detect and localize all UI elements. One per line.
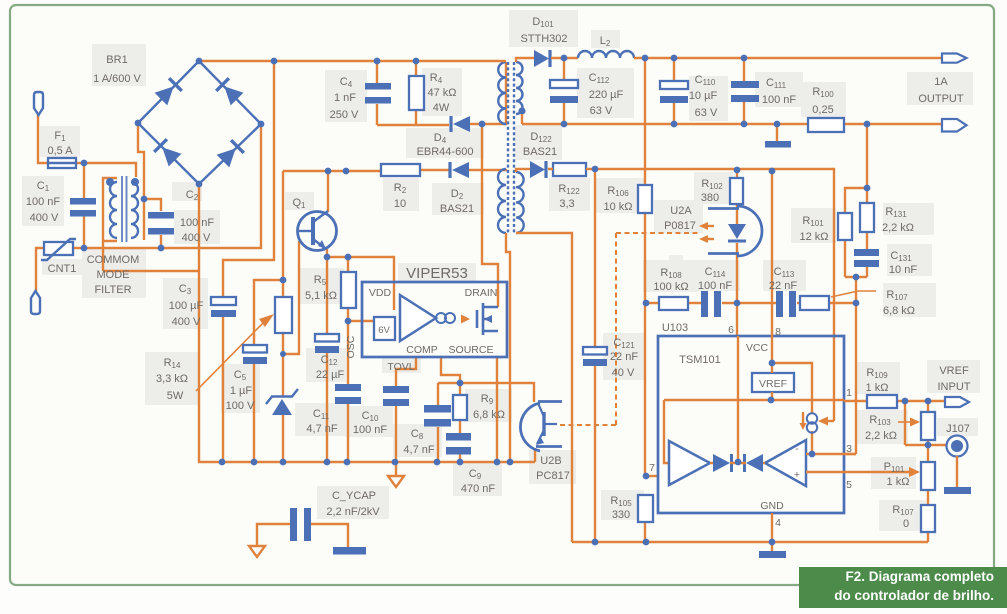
optocoupler U2B arc: [520, 403, 540, 451]
wire: drain node down into VIPER53: [482, 124, 498, 307]
wire: ground stub under rail: [395, 462, 397, 476]
svg-text:EBR44-600: EBR44-600: [417, 146, 474, 158]
wire: VDD row to VIPER: [326, 257, 394, 310]
wire: output plus row: [634, 57, 942, 59]
svg-text:BR1: BR1: [106, 54, 127, 66]
mosfet inside VIPER53: [476, 310, 479, 328]
wire: Q1 base to zener node: [283, 241, 299, 354]
svg-text:10 kΩ: 10 kΩ: [603, 201, 632, 213]
capacitor C114: [701, 291, 708, 317]
TRANSFORMER: [498, 61, 928, 542]
wire: pin3 to node: [844, 453, 856, 455]
wire: pin5 row: [806, 471, 844, 473]
capacitor C8: [424, 405, 451, 413]
svg-text:470 nF: 470 nF: [461, 483, 496, 495]
current source circles: [807, 413, 817, 423]
connector plug bottom input: [31, 291, 40, 314]
ground bar pin4: [759, 551, 786, 558]
svg-text:63 V: 63 V: [695, 107, 718, 119]
svg-text:6: 6: [728, 324, 734, 336]
svg-text:100 V: 100 V: [226, 400, 255, 412]
svg-text:0,25: 0,25: [812, 104, 833, 116]
wire: neutral row to bridge right corner: [73, 126, 261, 248]
diode D101: [534, 50, 549, 67]
connector J107: [947, 436, 968, 457]
svg-text:1 nF: 1 nF: [334, 92, 356, 104]
wire: C121 column: [594, 169, 596, 542]
svg-text:1A: 1A: [934, 76, 948, 88]
svg-text:1: 1: [846, 387, 852, 399]
svg-text:4,7 nF: 4,7 nF: [403, 444, 434, 456]
connector output return: [942, 119, 967, 132]
svg-text:-: -: [795, 443, 799, 455]
svg-text:400 V: 400 V: [172, 316, 201, 328]
zener diode DZ: [272, 399, 292, 415]
svg-text:4W: 4W: [433, 102, 450, 114]
svg-text:250 V: 250 V: [330, 109, 359, 121]
wire: snubber bottom row to D4: [377, 62, 506, 125]
wire: COMP node to U2B collector: [460, 383, 534, 402]
capacitor C1: [70, 198, 96, 205]
wire: pin5 wiper arrow: [844, 471, 910, 473]
R14 selection arrow: [196, 320, 266, 391]
svg-text:100 nF: 100 nF: [698, 280, 733, 292]
ground arrow primary: [388, 476, 404, 487]
coupler circles: [436, 313, 446, 323]
svg-text:10 µF: 10 µF: [689, 90, 718, 102]
resistor R100 shunt: [808, 118, 844, 132]
wire: C2 bottom: [160, 235, 162, 248]
wire: C_YCAP right leg: [311, 524, 348, 547]
capacitor C9: [446, 433, 471, 441]
SECONDARY_TOP: [516, 50, 967, 426]
capacitor C113: [776, 291, 783, 317]
capacitor C131: [854, 249, 879, 256]
svg-text:2,2 nF/2kV: 2,2 nF/2kV: [326, 506, 380, 518]
svg-text:10: 10: [394, 198, 406, 210]
wire: OSC pin: [348, 320, 374, 322]
svg-text:1 µF: 1 µF: [230, 385, 253, 397]
aux winding lower-left: [498, 169, 506, 233]
svg-text:1 kΩ: 1 kΩ: [887, 476, 910, 488]
svg-text:6,8 kΩ: 6,8 kΩ: [883, 305, 915, 317]
common mode choke L1: [110, 182, 117, 238]
rheostat R14: [275, 297, 292, 333]
svg-text:INPUT: INPUT: [938, 381, 971, 393]
svg-text:3: 3: [846, 443, 852, 455]
small down arrow: [802, 412, 804, 424]
svg-text:5,1 kΩ: 5,1 kΩ: [305, 290, 337, 302]
wire: CNT1 to bottom plug: [36, 248, 44, 291]
svg-text:1 A/600 V: 1 A/600 V: [93, 73, 141, 85]
svg-text:STTH302: STTH302: [520, 33, 567, 45]
svg-text:400 V: 400 V: [30, 212, 59, 224]
ground bar output: [765, 141, 791, 148]
wire: R14 / zener column: [282, 171, 284, 462]
svg-text:3,3: 3,3: [559, 198, 574, 210]
wire: R106 column from +out: [644, 58, 646, 542]
wire: fuse to L1 right winding top: [76, 163, 136, 177]
svg-text:VDD: VDD: [369, 287, 392, 299]
ground bar J107: [944, 487, 971, 494]
svg-text:U2B: U2B: [540, 455, 561, 467]
svg-text:+: +: [794, 469, 800, 481]
wire: TOVL pin to C10: [396, 357, 416, 462]
svg-text:BAS21: BAS21: [523, 146, 557, 158]
svg-text:4: 4: [775, 517, 781, 529]
capacitor C4: [365, 83, 391, 90]
bridge diode top-right: [216, 78, 243, 105]
svg-text:VIPER53: VIPER53: [406, 265, 468, 282]
VREF box: [752, 373, 794, 392]
wire: L1 left winding bracket: [103, 178, 200, 271]
resistor R131: [860, 203, 874, 232]
svg-text:220 µF: 220 µF: [589, 89, 624, 101]
wire: primary top connects row: [500, 60, 506, 62]
wire: C5 branch: [254, 280, 283, 462]
capacitor C2: [148, 212, 174, 219]
diode D4: [453, 116, 470, 132]
wire: C112 legs: [563, 58, 565, 124]
svg-text:do controlador de brilho.: do controlador de brilho.: [834, 588, 994, 603]
wire: VREF branch to current source: [772, 363, 812, 454]
VIPER53 box U1: [362, 282, 507, 357]
svg-text:100 kΩ: 100 kΩ: [653, 281, 688, 293]
svg-text:0,5 A: 0,5 A: [47, 145, 73, 157]
connector output plus: [942, 54, 967, 63]
svg-text:J107: J107: [946, 423, 970, 435]
svg-text:GND: GND: [760, 500, 784, 512]
capacitor C5 electrolytic: [243, 345, 267, 353]
svg-text:SOURCE: SOURCE: [449, 344, 494, 356]
wire: pin8 column VREF: [771, 171, 773, 373]
orange arrow into current source: [818, 417, 828, 426]
wire: pin1 row to R109 and VREF input: [844, 400, 945, 402]
bridge diode bottom-left: [154, 139, 181, 166]
svg-text:OUTPUT: OUTPUT: [918, 93, 964, 105]
connector plug top input: [34, 92, 43, 115]
wire: down to J107 row: [905, 401, 946, 445]
bridge diode top-left: [155, 78, 182, 105]
svg-text:330: 330: [612, 509, 630, 521]
feedback winding lower-right: [516, 172, 524, 233]
ground arrow C_YCAP: [249, 546, 265, 557]
primary winding: [498, 62, 506, 124]
6V reference box: [374, 317, 395, 340]
resistor R106: [638, 185, 652, 213]
svg-text:10 nF: 10 nF: [889, 264, 917, 276]
svg-text:VCC: VCC: [746, 342, 769, 354]
wire: secondary gnd rail lower: [572, 541, 928, 543]
resistor R101: [838, 213, 852, 240]
wire: R102 U2A column: [736, 170, 738, 336]
diode pair middle: [713, 454, 730, 472]
transistor Q1: [298, 212, 337, 251]
bridge rectifier BR1 frame: [138, 61, 261, 184]
wire: C110 legs: [673, 58, 675, 124]
U2A emission arrows: [703, 225, 714, 227]
svg-text:PC817: PC817: [536, 470, 570, 482]
wire: COMP pin to R9 C9: [441, 357, 460, 462]
svg-text:5W: 5W: [167, 390, 184, 402]
svg-text:100 µF: 100 µF: [169, 300, 204, 312]
wire: pin7 stub: [645, 475, 659, 477]
wire: R5 column and C11: [347, 257, 349, 462]
resistor R9: [453, 395, 467, 420]
capacitor C121 electrolytic: [583, 347, 607, 355]
optocoupler U2A arc: [737, 206, 762, 256]
leader line R107b label: [831, 291, 876, 297]
CONTROL: [520, 58, 876, 558]
resistor R107a: [921, 505, 935, 532]
svg-text:8: 8: [775, 326, 781, 338]
error amp triangle: [400, 295, 436, 341]
svg-text:TSM101: TSM101: [679, 354, 721, 366]
svg-text:7: 7: [649, 462, 655, 474]
orange arrow to mosfet gate: [461, 315, 470, 324]
svg-text:BAS21: BAS21: [440, 203, 474, 215]
wire: Q1 emitter: [326, 249, 328, 257]
wire: HV branch down to C3: [223, 61, 274, 462]
resistor R103: [921, 412, 935, 440]
wire: C8 branch: [438, 383, 460, 462]
svg-text:1 kΩ: 1 kΩ: [866, 382, 889, 394]
wire: output gnd stub: [776, 124, 778, 141]
LED U2A: [728, 224, 746, 239]
diode D2: [452, 162, 469, 178]
svg-text:DRAIN: DRAIN: [465, 287, 498, 299]
svg-text:5: 5: [846, 479, 852, 491]
capacitor C112 electrolytic: [550, 80, 578, 88]
resistor R4: [409, 76, 424, 110]
svg-text:3,3 kΩ: 3,3 kΩ: [156, 373, 188, 385]
svg-text:COMP: COMP: [406, 344, 438, 356]
svg-text:MODE: MODE: [97, 269, 130, 281]
wire: J107 ground: [956, 456, 958, 487]
wire: bottom node C131 R101: [845, 277, 867, 454]
wire: C_YCAP left leg: [257, 524, 290, 545]
diode D122: [530, 161, 545, 178]
svg-text:100 nF: 100 nF: [180, 217, 215, 229]
svg-text:40 V: 40 V: [612, 367, 635, 379]
svg-text:CNT1: CNT1: [48, 263, 77, 275]
transistor U2B: [542, 412, 545, 436]
svg-text:0: 0: [903, 518, 909, 530]
svg-text:400 V: 400 V: [182, 232, 211, 244]
wire: R103 P101 R107a column: [927, 401, 929, 542]
capacitor C11: [335, 384, 361, 391]
wire: C4 snubber legs: [377, 61, 416, 125]
svg-text:380: 380: [701, 192, 719, 204]
thermistor CNT1: [44, 242, 73, 255]
svg-text:22 µF: 22 µF: [316, 369, 345, 381]
svg-text:COMMOM: COMMOM: [87, 254, 140, 266]
wire: aux winding bottom to primary gnd: [506, 233, 510, 462]
svg-text:22 nF: 22 nF: [769, 280, 797, 292]
capacitor C3 electrolytic: [211, 297, 236, 305]
svg-text:2,2 kΩ: 2,2 kΩ: [865, 430, 897, 442]
R103 leader arrow: [898, 421, 912, 423]
svg-text:6,8 kΩ: 6,8 kΩ: [473, 409, 505, 421]
bridge diode bottom-right: [217, 140, 244, 167]
svg-text:100 nF: 100 nF: [26, 196, 61, 208]
wire: bridge bottom down and primary ground rail: [199, 184, 535, 462]
wire: secondary return row: [522, 114, 942, 124]
resistor R108: [659, 297, 688, 310]
svg-text:4,7 nF: 4,7 nF: [306, 423, 337, 435]
resistor R109: [867, 395, 897, 408]
svg-text:6V: 6V: [378, 325, 390, 336]
wire: C111 legs: [743, 58, 745, 124]
resistor R105: [638, 495, 653, 522]
resistor R5: [341, 272, 356, 308]
wire: SOURCE pin down: [496, 357, 498, 462]
wire: U2B emitter to rail: [534, 448, 536, 462]
wire: feedback row: [548, 169, 834, 421]
wire: Q1 collector: [327, 171, 329, 212]
wire: pin3 row: [806, 453, 856, 455]
resistor R122: [553, 163, 586, 176]
comparator triangle right: [765, 440, 806, 486]
wire: D101 to L2: [551, 57, 578, 59]
secondary winding top: [516, 62, 523, 114]
dashed optocoupler link: [557, 233, 698, 425]
wire: aux row R2 D2: [283, 169, 506, 171]
wire: bridge left corner to C2 top: [138, 126, 161, 240]
comparator triangle left: [669, 441, 710, 485]
svg-text:22 nF: 22 nF: [610, 351, 638, 363]
wire: pin6 column inside: [737, 336, 739, 460]
capacitor C12 electrolytic: [315, 334, 339, 342]
svg-text:TOVL: TOVL: [387, 361, 414, 373]
resistor R102: [730, 178, 743, 204]
resistor R107b: [800, 296, 829, 310]
wire: input plug top to fuse F1: [38, 114, 48, 163]
wire: C1 branch: [83, 163, 85, 248]
TSM101 box U103: [658, 336, 844, 513]
transformer T1 core: [507, 62, 509, 233]
WIRES_PRIMARY: [36, 61, 535, 557]
svg-text:U103: U103: [662, 322, 688, 334]
svg-text:C_YCAP: C_YCAP: [332, 490, 376, 502]
capacitor C110 electrolytic: [660, 81, 688, 89]
wire: pin4 gnd: [771, 513, 773, 551]
wire: feedback winding bottom to secondary gnd: [516, 233, 572, 542]
wire: VREF bottom / pin1 row inside: [664, 392, 844, 463]
capacitor C111: [731, 81, 759, 88]
svg-text:VREF: VREF: [939, 365, 969, 377]
COMP_PRIMARY: [31, 58, 507, 555]
caption box: [799, 567, 1007, 608]
wire: secondary top to D101: [516, 58, 534, 62]
inductor L2: [578, 51, 634, 58]
connector VREF INPUT: [945, 397, 969, 407]
capacitor C10: [383, 386, 409, 393]
svg-text:U2A: U2A: [670, 205, 692, 217]
wire: vsense row R108 C114 C113 R107: [645, 302, 856, 304]
resistor R2: [381, 164, 420, 176]
ground bar C_YCAP: [333, 547, 366, 555]
svg-text:VREF: VREF: [759, 378, 787, 390]
wire: feedback winding top to D122: [516, 169, 530, 172]
svg-text:100 nF: 100 nF: [762, 94, 797, 106]
potentiometer P101: [921, 462, 935, 490]
svg-text:12 kΩ: 12 kΩ: [799, 231, 828, 243]
svg-text:P0817: P0817: [664, 220, 696, 232]
RIGHTSIDE: [838, 124, 971, 542]
svg-text:63 V: 63 V: [590, 105, 613, 117]
svg-text:OSC: OSC: [345, 335, 357, 358]
fuse F1: [48, 158, 76, 168]
wire: output node down to R131 R101: [845, 124, 867, 277]
wire: HV top row bridge+ to transformer primary: [199, 60, 500, 62]
svg-text:47 kΩ: 47 kΩ: [427, 87, 456, 99]
svg-text:100 nF: 100 nF: [353, 424, 388, 436]
wire: C12 column: [326, 257, 328, 462]
svg-text:FILTER: FILTER: [94, 284, 131, 296]
capacitor C_YCAP: [290, 508, 297, 541]
svg-text:2,2 kΩ: 2,2 kΩ: [882, 222, 914, 234]
svg-text:F2. Diagrama completo: F2. Diagrama completo: [845, 569, 994, 584]
